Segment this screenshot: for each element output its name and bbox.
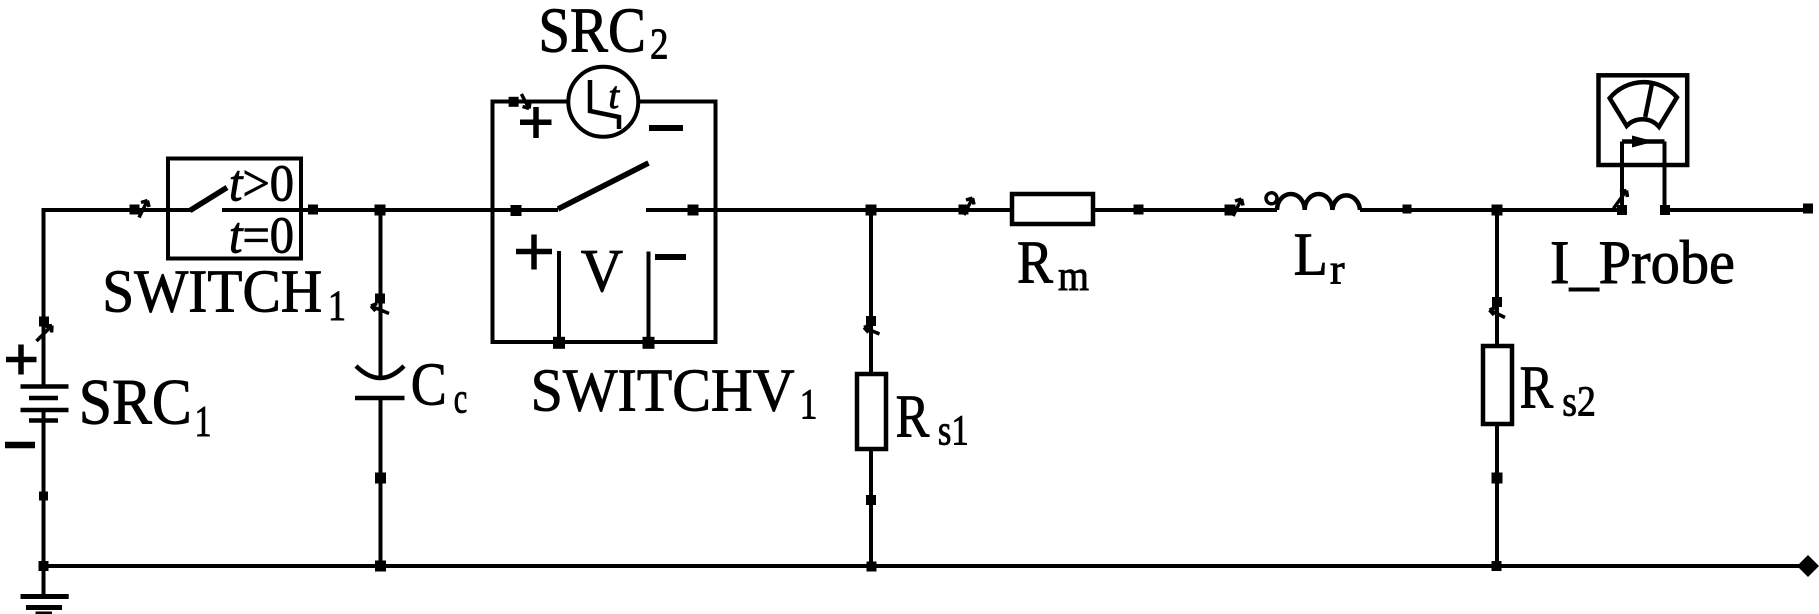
- node square right of Rm: [1134, 205, 1144, 215]
- pin square SRC1 bottom: [39, 492, 48, 501]
- svg-text:C: C: [411, 351, 447, 418]
- battery SRC1 plates: [21, 387, 69, 421]
- wire: I_Probe right leg: [1663, 142, 1667, 211]
- label Rm: [1017, 230, 1089, 300]
- pin marker square SRC2 pin1: [509, 97, 519, 107]
- switch SWITCHV1 enclosure box: [493, 102, 716, 343]
- SWITCHV1 right sense pad: [643, 337, 655, 349]
- pin marker slash Rs2 pin1: [1490, 308, 1506, 318]
- pin marker slash Rm pin1: [964, 198, 974, 215]
- svg-text:s1: s1: [938, 408, 969, 455]
- battery SRC1 plus sign: [6, 345, 37, 375]
- junction square Rs1 bottom: [867, 562, 877, 572]
- SWITCHV1 left sense stub: [557, 251, 561, 341]
- svg-text:L: L: [1294, 222, 1328, 289]
- svg-text:R: R: [1017, 230, 1053, 297]
- pin marker slash SWITCH1 pin1: [139, 201, 149, 218]
- junction square Rs2 bottom: [1492, 561, 1502, 571]
- wire: main bus from I_Probe to right end: [1665, 208, 1809, 212]
- switch SWITCHV1 fixed contact line: [646, 208, 716, 212]
- label Cc: [411, 351, 468, 422]
- svg-text:r: r: [1330, 246, 1345, 293]
- label Rs2: [1520, 354, 1596, 425]
- label SWITCHV1: [531, 357, 818, 428]
- pin marker square Rs1 pin1: [866, 316, 876, 326]
- pin marker square Rm pin1: [959, 205, 969, 215]
- svg-text:SRC: SRC: [79, 367, 192, 439]
- svg-text:I_Probe: I_Probe: [1550, 229, 1735, 297]
- wire: Rs2 top lead: [1495, 210, 1499, 346]
- node diamond bottom right: [1797, 555, 1819, 577]
- meter I_Probe arrow line: [1622, 139, 1665, 144]
- wire: bottom ground bus: [44, 564, 1800, 568]
- wire: SRC1 bottom lead: [42, 410, 46, 566]
- node square right of Lr: [1403, 205, 1412, 214]
- svg-text:t=0: t=0: [229, 208, 294, 265]
- pin marker square Rs2 pin1: [1492, 297, 1502, 307]
- svg-text:SWITCH: SWITCH: [102, 259, 322, 326]
- node square SWITCHV1 right: [688, 205, 699, 216]
- wire: main bus from Rm to Lr: [1093, 208, 1277, 212]
- switch SWITCH1 enclosure box: [168, 159, 301, 259]
- meter I_Probe box: [1599, 75, 1688, 165]
- SRC2 plus sign: [520, 107, 552, 138]
- capacitor Cc curved plate: [356, 366, 404, 378]
- svg-text:1: 1: [195, 397, 212, 446]
- meter I_Probe arrow head: [1632, 136, 1655, 148]
- SWITCHV1 sense plus sign: [516, 235, 552, 270]
- node A junction square at Cc top: [375, 205, 386, 216]
- junction square bottom left: [39, 561, 49, 571]
- resistor Rs2 body: [1483, 346, 1512, 424]
- wire: Rs2 bottom lead: [1495, 424, 1499, 566]
- svg-text:2: 2: [650, 20, 669, 69]
- label SRC1: [79, 367, 212, 446]
- ground stub: [42, 566, 46, 597]
- svg-text:R: R: [1520, 354, 1554, 421]
- svg-text:t>0: t>0: [229, 156, 294, 213]
- wire: left vertical riser from main bus down to SRC1: [42, 208, 46, 387]
- battery SRC1 pin marker square: [39, 317, 49, 327]
- ground bar 3: [36, 612, 53, 614]
- svg-text:V: V: [581, 238, 623, 305]
- svg-text:1: 1: [800, 382, 818, 429]
- svg-text:m: m: [1058, 253, 1089, 300]
- wire: main bus from SWITCH1 to SWITCHV1 pivot: [301, 208, 558, 212]
- pin square Cc bottom: [375, 473, 386, 484]
- SWITCHV1 right sense stub: [647, 252, 651, 342]
- pin square Rs1 bottom: [866, 495, 876, 505]
- node square SWITCHV1 left: [511, 205, 522, 216]
- switch SWITCH1 lever (open): [190, 188, 227, 211]
- resistor Rm body: [1012, 194, 1093, 224]
- battery SRC1 pin marker slash: [37, 326, 53, 342]
- wire: Rs1 top lead: [869, 210, 873, 374]
- meter I_Probe needle: [1645, 84, 1652, 117]
- switch SWITCHV1 lever (open): [558, 163, 649, 209]
- wire: Cc top lead: [379, 210, 383, 379]
- svg-text:t: t: [609, 75, 621, 117]
- source SRC2 step waveform: [590, 80, 619, 129]
- SRC2 minus sign: [649, 125, 683, 131]
- svg-text:SRC: SRC: [538, 0, 646, 65]
- SWITCHV1 left sense pad: [553, 337, 565, 349]
- pin marker slash Cc pin1: [371, 304, 389, 314]
- meter I_Probe dial fan: [1610, 82, 1677, 127]
- pin marker slash Rs1 pin1: [864, 325, 880, 334]
- pin marker slash Lr pin1: [1233, 199, 1243, 216]
- svg-text:SWITCHV: SWITCHV: [531, 357, 795, 424]
- pin marker square SWITCH1 pin1: [130, 205, 140, 215]
- wire: I_Probe left leg: [1620, 142, 1624, 211]
- node B junction square at Rs1 top: [866, 205, 877, 216]
- label SWITCH1: [102, 259, 346, 331]
- wire: main bus from Lr to I_Probe: [1360, 208, 1622, 212]
- battery SRC1 minus sign: [5, 442, 35, 449]
- inductor Lr coils: [1277, 194, 1360, 210]
- source SRC2 circle (step source): [568, 67, 638, 137]
- junction square Cc bottom: [375, 561, 386, 572]
- switch SWITCH1 fixed contact line: [222, 208, 301, 212]
- svg-text:R: R: [896, 383, 930, 450]
- svg-text:1: 1: [328, 283, 346, 330]
- label Rs1: [896, 383, 969, 454]
- node square right of SWITCH1: [308, 205, 318, 215]
- pin square Rs2 bottom: [1492, 473, 1503, 484]
- resistor Rs1 body: [857, 374, 886, 449]
- wire: main bus from SWITCHV1 to Rm: [690, 208, 1012, 212]
- ground bar 1: [21, 594, 69, 599]
- wire: Rs1 bottom lead: [869, 449, 873, 566]
- inductor Lr polarity dot: [1266, 193, 1277, 204]
- pin marker square Cc pin1: [375, 294, 385, 304]
- pin marker slash I_Probe pin1: [1614, 191, 1628, 209]
- node square right end of bus: [1803, 204, 1813, 214]
- svg-text:c: c: [454, 375, 468, 422]
- pin marker slash SRC2 pin1: [521, 94, 530, 109]
- ground bar 2: [26, 605, 62, 610]
- SWITCHV1 sense minus sign: [655, 254, 686, 260]
- pin marker square Lr pin1: [1225, 205, 1236, 216]
- label Lr: [1294, 222, 1345, 294]
- label SRC2: [538, 0, 668, 69]
- pin square I_Probe right: [1660, 205, 1670, 215]
- svg-text:s2: s2: [1562, 379, 1596, 426]
- pin square I_Probe left: [1617, 205, 1627, 215]
- wire: main bus segment from left riser to SWITCH1 pivot: [42, 208, 192, 212]
- capacitor Cc straight plate: [355, 396, 405, 401]
- wire: Cc bottom lead: [379, 398, 383, 566]
- node C junction square at Rs2 top: [1492, 205, 1503, 216]
